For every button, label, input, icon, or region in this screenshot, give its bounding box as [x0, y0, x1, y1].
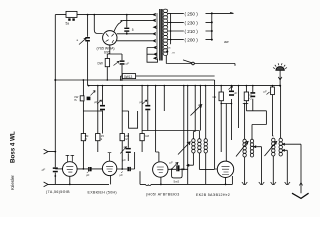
- wire bottom bus right: [140, 171, 232, 184]
- coil L1 hum: [146, 184, 151, 185]
- svg-text:DW: DW: [98, 62, 103, 66]
- capacitor C3: [114, 60, 130, 65]
- earth symbol top: [273, 63, 287, 86]
- svg-text:( 200 ): ( 200 ): [185, 38, 199, 43]
- wire aerial lead: [300, 144, 302, 193]
- wire tap bus: [206, 13, 212, 39]
- svg-text:(H05! AГBГBEЮ3: (H05! AГBГBEЮ3: [146, 193, 180, 197]
- wire bus earth: [89, 85, 281, 87]
- transformer T1 primary winding: [153, 13, 157, 59]
- svg-text:,μF: ,μF: [41, 168, 45, 172]
- resistor R5: [96, 86, 105, 152]
- svg-text:aw: aw: [224, 40, 229, 44]
- capacitor C8: [117, 152, 135, 177]
- capacitor C10 inline: [168, 161, 188, 172]
- node tap labels: [185, 11, 199, 42]
- wire col 155: [156, 86, 165, 152]
- terminal T-b: [259, 182, 265, 184]
- terminal T-c: [271, 182, 277, 184]
- svg-text:Ω1: Ω1: [213, 95, 217, 99]
- tube V5: [215, 161, 234, 185]
- tube V3: [102, 153, 116, 185]
- svg-text:5a: 5a: [66, 21, 70, 25]
- label brand: [10, 131, 17, 190]
- wire heater vertical: [87, 15, 89, 86]
- svg-text:1M: 1M: [145, 134, 150, 138]
- wire primary heater lead: [147, 48, 158, 63]
- capacitor C2: [124, 14, 134, 32]
- terminal P1: [44, 149, 56, 154]
- svg-text:Kriesler: Kriesler: [10, 175, 15, 190]
- svg-text:(7A,56)5ΘIB: (7A,56)5ΘIB: [46, 190, 70, 194]
- transformer T2: [186, 86, 214, 185]
- capacitor C7: [77, 167, 102, 177]
- svg-text:5w2: 5w2: [174, 180, 180, 184]
- svg-text:( 210 ): ( 210 ): [185, 29, 199, 34]
- resistor R10: [244, 86, 252, 111]
- svg-text:μF: μF: [126, 62, 130, 66]
- arrow tuning A3: [236, 142, 248, 157]
- svg-text:5: 5: [132, 28, 134, 32]
- wire cap to HT line: [126, 32, 128, 34]
- wire columns mid: [184, 86, 201, 185]
- wire heater drop: [94, 15, 102, 34]
- svg-text:5W13: 5W13: [124, 75, 133, 79]
- svg-text:μF: μF: [120, 173, 124, 177]
- terminal T-a: [242, 182, 248, 184]
- resistor R4: [81, 134, 89, 169]
- capacitor C6: [41, 167, 58, 177]
- wire mains to transformer: [94, 14, 153, 16]
- resistor R6: [120, 86, 130, 170]
- wire antenna col: [280, 86, 282, 139]
- tube V2: [55, 155, 77, 185]
- wire mains feed arrow: [212, 12, 234, 13]
- capacitor C1 trimmer: [77, 37, 90, 45]
- resistor R2 5W13: [121, 74, 215, 80]
- tube V4: [153, 152, 168, 185]
- svg-text:.μs: .μs: [167, 46, 172, 50]
- transformer T1 secondary winding: [163, 9, 168, 55]
- terminal P2: [44, 182, 48, 187]
- svg-text:( 230 ): ( 230 ): [185, 20, 199, 25]
- svg-text:μF: μF: [86, 173, 90, 177]
- switch S1: [167, 60, 235, 66]
- capacitor C12: [250, 86, 255, 111]
- transformer T1 core: [160, 9, 162, 61]
- svg-text:.m: .m: [172, 51, 176, 55]
- wire secondary bottom: [166, 56, 167, 64]
- svg-text:μF: μF: [94, 100, 98, 104]
- wire left column: [54, 80, 56, 184]
- wire bus HT: [55, 79, 214, 81]
- transformer T3: [243, 103, 262, 185]
- resistor R1: [98, 59, 110, 67]
- fuse F1: [66, 11, 78, 25]
- wire left vertical: [54, 15, 56, 80]
- capacitor C5: [140, 86, 151, 131]
- potentiometer R3: [74, 79, 95, 133]
- arrow earth big: [292, 193, 309, 198]
- wire mains top: [55, 14, 94, 16]
- resistor R7: [140, 86, 150, 152]
- arrow tuning A4: [265, 142, 277, 157]
- wire link: [83, 110, 102, 112]
- wire right HT drop: [214, 80, 216, 169]
- wire y130 link: [142, 130, 199, 132]
- svg-text:μF: μF: [140, 100, 144, 104]
- wire tap riser: [170, 13, 172, 44]
- svg-text:EXBЮEH (50H): EXBЮEH (50H): [88, 191, 117, 195]
- wire switch drop: [238, 86, 240, 128]
- capacitor C11: [229, 86, 238, 140]
- wire cathode: [107, 45, 122, 80]
- wire bottom bus left: [48, 183, 109, 185]
- transformer T4: [272, 138, 301, 184]
- wire heater loop: [114, 20, 153, 31]
- svg-text:μF: μF: [123, 158, 127, 162]
- svg-text:μF: μF: [264, 90, 268, 94]
- resistor R8 5w2 loop: [172, 169, 183, 183]
- svg-text:μF: μF: [234, 91, 238, 95]
- rectifier V1: [103, 31, 117, 45]
- capacitor C4: [94, 86, 105, 134]
- arrow tuning A1: [191, 105, 202, 116]
- resistor R11: [271, 86, 275, 136]
- arrow tuning A2: [178, 142, 190, 155]
- svg-text:μF: μF: [170, 161, 174, 165]
- svg-text:( 250 ): ( 250 ): [185, 11, 199, 16]
- wire U right: [246, 111, 266, 125]
- svg-text:Boss 4 WL: Boss 4 WL: [10, 131, 17, 163]
- wire plate lines to transformer: [117, 33, 153, 35]
- wire secondary taps: [168, 13, 184, 39]
- resistor R9: [213, 86, 224, 152]
- terminal T-d: [285, 182, 291, 184]
- capacitor C9: [120, 133, 131, 162]
- wire jog grid: [221, 104, 231, 162]
- wire jog U: [122, 111, 137, 128]
- arrow up small: [299, 183, 302, 186]
- svg-text:EK2B 5AЭB12Нт2: EK2B 5AЭB12Нт2: [196, 193, 230, 197]
